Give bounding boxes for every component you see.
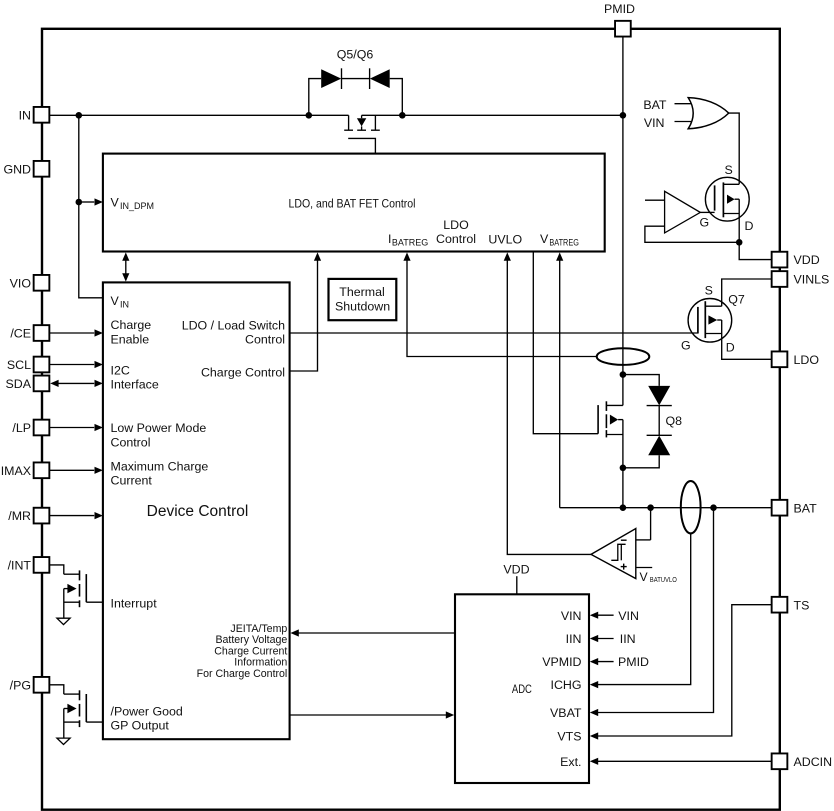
- svg-text:ADCIN: ADCIN: [794, 755, 833, 769]
- svg-text:BAT: BAT: [794, 501, 818, 515]
- svg-text:Ext.: Ext.: [560, 755, 581, 769]
- svg-text:/PG: /PG: [10, 678, 31, 692]
- svg-text:JEITA/Temp: JEITA/Temp: [230, 623, 287, 635]
- svg-text:Interrupt: Interrupt: [111, 597, 158, 611]
- svg-text:V: V: [111, 294, 120, 308]
- svg-text:VBAT: VBAT: [550, 706, 582, 720]
- svg-text:/LP: /LP: [12, 421, 31, 435]
- svg-text:Control: Control: [436, 232, 476, 246]
- svg-text:Device Control: Device Control: [147, 503, 249, 520]
- svg-text:I2C: I2C: [111, 363, 130, 377]
- svg-text:Maximum Charge: Maximum Charge: [111, 459, 209, 473]
- svg-text:Control: Control: [111, 435, 151, 449]
- svg-text:Charge: Charge: [111, 318, 152, 332]
- svg-text:VTS: VTS: [557, 730, 581, 744]
- svg-text:SDA: SDA: [6, 377, 32, 391]
- svg-text:VPMID: VPMID: [542, 655, 581, 669]
- svg-text:BAT: BAT: [643, 98, 667, 112]
- svg-text:VIN: VIN: [561, 609, 582, 623]
- svg-text:LDO: LDO: [794, 353, 820, 367]
- svg-text:BATREG: BATREG: [549, 238, 579, 248]
- svg-text:Q7: Q7: [728, 293, 745, 307]
- svg-text:Enable: Enable: [111, 332, 150, 346]
- svg-text:VDD: VDD: [794, 253, 820, 267]
- svg-text:S: S: [724, 163, 732, 177]
- svg-text:LDO / Load Switch: LDO / Load Switch: [182, 318, 285, 332]
- svg-text:/CE: /CE: [10, 327, 31, 341]
- svg-text:VDD: VDD: [503, 563, 529, 577]
- svg-text:UVLO: UVLO: [488, 232, 522, 246]
- svg-text:IN_DPM: IN_DPM: [120, 201, 154, 211]
- svg-text:Q5/Q6: Q5/Q6: [337, 48, 374, 62]
- svg-text:Battery Voltage: Battery Voltage: [215, 634, 287, 646]
- svg-text:SCL: SCL: [7, 358, 31, 372]
- svg-text:IN: IN: [19, 108, 31, 122]
- svg-text:Charge Current: Charge Current: [214, 645, 287, 657]
- svg-text:G: G: [699, 215, 709, 229]
- svg-text:IIN: IIN: [566, 632, 582, 646]
- svg-text:S: S: [705, 284, 713, 298]
- svg-text:ICHG: ICHG: [551, 678, 582, 692]
- svg-text:V: V: [540, 232, 549, 246]
- svg-text:Interface: Interface: [111, 378, 159, 392]
- svg-text:Charge Control: Charge Control: [201, 366, 285, 380]
- svg-text:VIO: VIO: [10, 276, 32, 290]
- svg-text:ADC: ADC: [512, 684, 532, 696]
- svg-text:D: D: [726, 341, 735, 355]
- svg-text:Control: Control: [245, 333, 285, 347]
- svg-text:V: V: [111, 196, 120, 210]
- svg-text:G: G: [681, 338, 691, 352]
- svg-text:For Charge Control: For Charge Control: [197, 668, 288, 680]
- svg-text:IN: IN: [120, 300, 129, 310]
- svg-text:GND: GND: [3, 162, 31, 176]
- svg-text:BATUVLO: BATUVLO: [650, 575, 677, 584]
- svg-text:PMID: PMID: [618, 655, 649, 669]
- svg-text:Current: Current: [111, 474, 153, 488]
- svg-text:/INT: /INT: [8, 559, 32, 573]
- svg-text:Q8: Q8: [666, 414, 683, 428]
- svg-text:VIN: VIN: [644, 116, 665, 130]
- svg-text:PMID: PMID: [604, 2, 635, 16]
- svg-text:/Power Good: /Power Good: [111, 705, 183, 719]
- svg-text:VINLS: VINLS: [794, 273, 830, 287]
- svg-text:IIN: IIN: [620, 632, 636, 646]
- svg-text:TS: TS: [794, 598, 810, 612]
- svg-text:BATREG: BATREG: [392, 238, 428, 248]
- svg-text:/MR: /MR: [8, 509, 31, 523]
- svg-text:Information: Information: [234, 657, 287, 669]
- svg-text:V: V: [640, 570, 649, 584]
- svg-text:LDO: LDO: [443, 218, 469, 232]
- svg-text:Thermal: Thermal: [339, 285, 384, 299]
- svg-text:LDO, and BAT FET Control: LDO, and BAT FET Control: [289, 197, 416, 211]
- svg-text:D: D: [745, 219, 754, 233]
- svg-text:GP Output: GP Output: [111, 719, 170, 733]
- svg-text:Low Power Mode: Low Power Mode: [111, 421, 207, 435]
- svg-text:Shutdown: Shutdown: [335, 300, 390, 314]
- svg-text:VIN: VIN: [618, 609, 639, 623]
- svg-text:IMAX: IMAX: [1, 464, 31, 478]
